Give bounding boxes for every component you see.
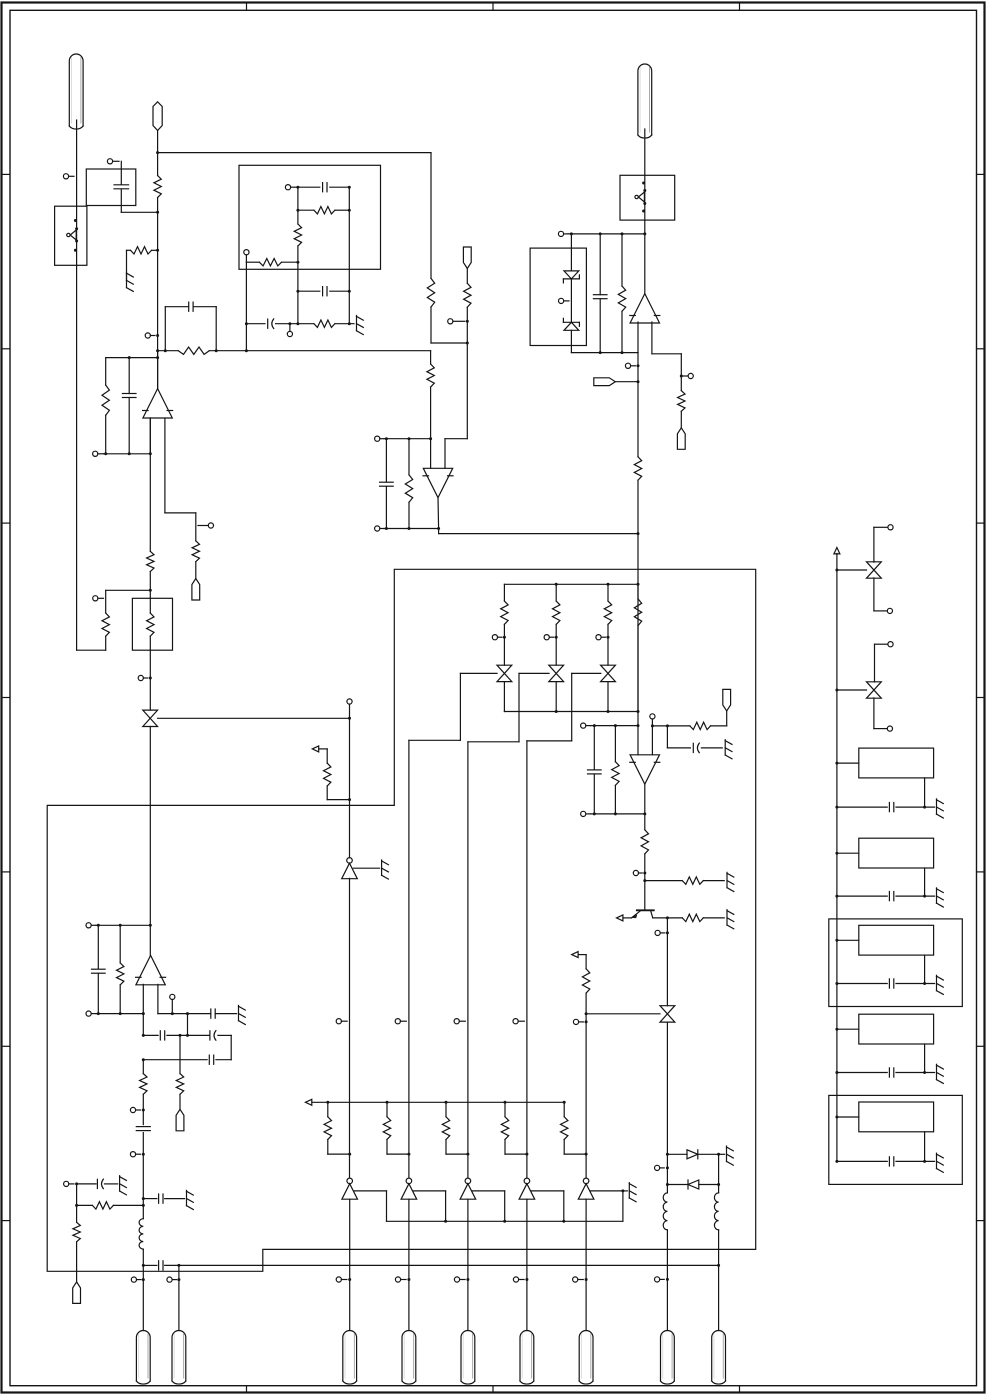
- capacitor C-I1: [92, 925, 106, 1013]
- connector J11 (tube): [712, 1331, 726, 1385]
- resonator unit Y3 (boxed): [829, 919, 963, 1007]
- resistor R-B3: [156, 347, 246, 354]
- terminal T-I1: [86, 923, 96, 928]
- switch SW-G1: [660, 1006, 675, 1022]
- terminal T-E3: [680, 373, 694, 378]
- resonator unit Y1: [835, 748, 943, 818]
- terminal T-G5: [655, 930, 669, 935]
- inverter INV-H5: [578, 1178, 594, 1199]
- capacitor C-E1: [593, 234, 607, 353]
- wire SW-G1 bottom: [666, 1022, 668, 1154]
- ground G-G2: [727, 872, 734, 891]
- wire SW-K1 top: [874, 527, 888, 562]
- terminal T-G4: [633, 870, 646, 875]
- wire row528: [384, 527, 440, 530]
- resistor R-F1: [501, 584, 508, 665]
- terminal T-G2: [650, 714, 655, 755]
- wire col2 down: [408, 740, 410, 1178]
- wire L-J2 down: [717, 1230, 720, 1331]
- transducer element inside U1: [67, 206, 78, 265]
- diode D-J1: [666, 1150, 720, 1159]
- inductor L-I1: [139, 1219, 143, 1249]
- wire x638 mid: [637, 534, 639, 755]
- wire W bottom bus: [142, 1264, 157, 1267]
- wire U-I1 in- down: [142, 984, 144, 1035]
- wire x667.4 down: [666, 918, 668, 1006]
- wire x246 down: [245, 262, 247, 351]
- terminal T-E2: [559, 298, 570, 303]
- resistor R-B5: [192, 541, 199, 579]
- terminal T-H3: [336, 1019, 347, 1024]
- capacitor C-I3 (polarized): [188, 1031, 232, 1041]
- protection box BX2: [530, 248, 586, 345]
- terminal T-E1: [558, 231, 568, 236]
- wire x157.6 mid: [157, 250, 159, 388]
- op-amp U-B1 output up: [157, 351, 159, 389]
- wire U-B1 in+ route: [165, 418, 196, 541]
- wire SW-H1 to x349.5: [158, 717, 351, 720]
- wire INV-H3 bubble link: [472, 1191, 504, 1221]
- terminal T-H5: [454, 1019, 465, 1024]
- component box BX3: [132, 598, 172, 650]
- resistor R-D1: [427, 351, 434, 469]
- resonator unit Y2: [835, 838, 943, 907]
- wire SW-F1 bottom: [503, 682, 505, 712]
- wire J1 down: [76, 120, 78, 206]
- wire SW-K2 bottom: [874, 698, 887, 729]
- capacitor C-C2: [296, 287, 350, 296]
- capacitor C-I6: [142, 1194, 185, 1203]
- terminal T-H2: [138, 675, 152, 680]
- wire row357 left: [106, 356, 159, 359]
- wire x431 to x467: [431, 342, 469, 345]
- wire U-E1 in- down: [637, 322, 639, 457]
- wire row454: [104, 452, 152, 455]
- resistor R-G2: [612, 726, 619, 814]
- port tag TAG-E1: [677, 428, 685, 450]
- resistor R-H1: [324, 749, 352, 801]
- connector J5 (tube): [461, 1331, 475, 1385]
- wire U2 to op-amp U-E1: [644, 220, 646, 294]
- ground G-H1: [382, 860, 389, 879]
- terminal T-K1: [888, 525, 893, 530]
- inductor L-J2: [714, 1193, 718, 1230]
- net arrow AF-H2: [572, 952, 586, 958]
- op-amp U-E1: [630, 294, 660, 323]
- terminal T-E4: [625, 363, 639, 368]
- net arrow AF-H1: [312, 746, 327, 752]
- wire U1 to corner: [76, 265, 78, 650]
- switch SW-F3: [601, 665, 616, 681]
- capacitor C-B2: [165, 302, 216, 311]
- capacitor C-D1: [380, 439, 394, 529]
- terminal T-H1: [347, 699, 352, 858]
- ground G-I2: [120, 1176, 127, 1195]
- terminal T-J1: [655, 1165, 669, 1170]
- feedback loop right leg: [215, 307, 218, 353]
- feedback loop left leg: [164, 307, 167, 353]
- wire R-B2 to ground: [127, 250, 131, 280]
- switch SW-F1: [497, 665, 512, 681]
- ground G-I1: [187, 1190, 194, 1209]
- resistor R-I2: [140, 1060, 147, 1125]
- resistor R-D2: [427, 278, 434, 343]
- resistor R-G1: [667, 722, 710, 729]
- wire U-E1 in+ route: [652, 322, 681, 391]
- net label tag TAG-E2: [594, 378, 640, 386]
- terminal T-I2: [86, 1011, 96, 1016]
- inverter INV-H4: [519, 1178, 535, 1199]
- wire row1014L: [96, 1012, 145, 1015]
- wire INV-H1 bubble link: [354, 1191, 386, 1221]
- wire row584: [504, 583, 639, 586]
- wire SW-K1 bottom: [874, 578, 887, 611]
- wire x231 down: [230, 1035, 232, 1059]
- terminal T-I6: [64, 1181, 74, 1186]
- terminal T-F1: [492, 635, 506, 640]
- terminal T-I5: [130, 1152, 144, 1157]
- wire TAG-D1 down: [466, 269, 468, 284]
- resistor R-D3: [464, 283, 471, 438]
- terminal T-H7: [573, 1019, 587, 1024]
- wire row1014R: [158, 1012, 188, 1015]
- resistor R-C4: [298, 320, 354, 327]
- wire col4 down: [526, 741, 528, 1178]
- net arrow AF-K1: [834, 548, 840, 554]
- wire x297.9 down: [297, 262, 299, 324]
- wire SW-F1 left stair: [409, 673, 497, 740]
- connector J4 (tube): [402, 1331, 416, 1385]
- terminal T-K3: [888, 642, 893, 647]
- inductor L-J1: [663, 1193, 667, 1230]
- ground G-G3: [727, 910, 734, 929]
- wire row353: [571, 351, 638, 354]
- resistor R-H5 (bias): [324, 1101, 351, 1156]
- resistor R-D4: [405, 439, 412, 529]
- terminal T-K4: [887, 726, 892, 731]
- port tag TAG-D1: [463, 247, 471, 269]
- terminal T-G1: [581, 723, 591, 728]
- resistor R-H4: [582, 955, 589, 1178]
- transistor Q-G1: [632, 910, 654, 918]
- wire INV-H2 out: [408, 1199, 410, 1330]
- connector J10 (tube): [661, 1331, 675, 1385]
- resistor R-F2: [553, 584, 560, 665]
- diode D-J2: [666, 1180, 720, 1189]
- wire U-I1 in+ down: [157, 984, 159, 1013]
- wire INV-H1 out: [349, 1199, 351, 1330]
- component box U2: [620, 175, 675, 220]
- wire SW-F2 left stair: [468, 673, 549, 741]
- connector J3 (tube): [343, 1330, 357, 1384]
- op-amp U-D1: [423, 468, 453, 497]
- enclosure box BIGBOX: [47, 569, 756, 1271]
- net arrow AF-H3: [305, 1099, 311, 1105]
- wire row726: [590, 724, 639, 727]
- capacitor C-I5: [136, 1127, 150, 1131]
- terminal T-A1: [63, 174, 74, 179]
- wire U-G1 output: [644, 784, 646, 830]
- ground G-G1: [725, 740, 732, 759]
- port tag TAG-B1: [192, 579, 200, 601]
- wire J2 down: [644, 129, 646, 175]
- ground G-B1: [127, 272, 134, 291]
- resistor R-G3: [641, 830, 648, 911]
- port tag TAG-G1: [723, 689, 731, 711]
- wire zener mid: [570, 279, 572, 322]
- resistor R-H3: [147, 598, 154, 710]
- terminal T-B3: [93, 451, 104, 456]
- resistor R-C2: [294, 187, 301, 262]
- terminal T-I3: [170, 994, 175, 1013]
- connector J6 (tube): [520, 1331, 534, 1385]
- terminal T-I7: [131, 1277, 145, 1282]
- connector J1 (probe tube): [69, 54, 83, 129]
- terminal T-K2: [887, 608, 892, 613]
- resistor R-F4: [634, 584, 641, 711]
- terminal T-H4: [395, 1019, 406, 1024]
- capacitor C-I4: [142, 1055, 231, 1064]
- terminal T-F3: [596, 635, 610, 640]
- inverter INV-H3: [460, 1178, 476, 1199]
- capacitor box around C-B1: [86, 169, 136, 206]
- connector J7 (tube): [579, 1331, 593, 1385]
- capacitor C-I7 (polarized): [75, 1179, 118, 1189]
- ground G-H2: [629, 1183, 636, 1202]
- resonator unit Y5 (boxed): [829, 1095, 963, 1184]
- op-amp U-B1: [143, 389, 173, 418]
- terminal T-D2: [375, 436, 384, 441]
- resistor R-I4: [75, 1202, 145, 1209]
- resistor R-H6 (bias): [383, 1101, 410, 1156]
- wire bias bus: [312, 1101, 564, 1103]
- terminal T-I8: [167, 1277, 181, 1282]
- component box U1: [55, 206, 87, 265]
- wire SW-F3 bottom: [607, 682, 609, 712]
- wire col3 down: [467, 742, 469, 1178]
- resistor R-H2: [147, 418, 154, 598]
- wire U-D1 output: [437, 498, 440, 529]
- terminal T-D1: [448, 319, 469, 324]
- resistor R-B2: [131, 247, 160, 254]
- wire x667 seg: [666, 1154, 668, 1193]
- resistor R-E2: [678, 391, 685, 428]
- wire SW-H1 bottom: [149, 727, 152, 956]
- terminal T-C2: [244, 250, 249, 263]
- capacitor C-I9: [188, 1009, 237, 1018]
- wire P1 down: [157, 131, 159, 176]
- wire x718.6: [718, 1154, 720, 1193]
- terminal T-H11: [513, 1277, 528, 1282]
- wire INV-H5 out: [585, 1199, 587, 1330]
- capacitor C-C1: [296, 183, 349, 192]
- resistor R-I3 (to tag): [176, 1035, 183, 1109]
- wire row439: [384, 437, 432, 440]
- wire x349.3 down: [348, 186, 351, 324]
- switch SW-K1: [835, 562, 881, 578]
- resistor R-B1: [154, 176, 161, 251]
- wire INV-H5 bubble link: [591, 1189, 628, 1221]
- wire L-J1 down: [666, 1230, 668, 1331]
- wire SW-F2 bottom: [555, 682, 557, 712]
- wire x187.5 down: [186, 1012, 189, 1035]
- wire row711: [504, 710, 639, 713]
- ground G-I3: [239, 1005, 246, 1024]
- wire row234: [568, 232, 646, 235]
- wire INV-H3 out: [467, 1199, 469, 1330]
- terminal T-G3: [581, 811, 591, 816]
- capacitor C-B3: [122, 356, 136, 454]
- wire link bus: [387, 1220, 623, 1223]
- terminal T-B4: [198, 523, 213, 528]
- capacitor C-C3 (polarized): [245, 319, 300, 329]
- resistor R-H9 (bias): [561, 1101, 588, 1156]
- resistor R-I5: [73, 1184, 80, 1282]
- wire top net drop: [430, 153, 432, 279]
- inverter INV-H0: [342, 858, 358, 879]
- net arrow AF-G1: [617, 915, 632, 921]
- capacitor C-I2: [142, 1031, 189, 1040]
- zener D-E1: [563, 271, 579, 283]
- inverter INV-H1: [342, 1178, 358, 1199]
- terminal T-H8: [336, 1277, 351, 1282]
- switch SW-K2: [835, 682, 881, 698]
- terminal T-D3: [375, 526, 384, 531]
- resonator unit Y4: [835, 1014, 943, 1083]
- resistor R-H8 (bias): [501, 1101, 528, 1156]
- wire row351 to R-D1: [245, 349, 431, 352]
- wire row925: [96, 924, 150, 927]
- capacitor C-I8: [159, 1261, 719, 1270]
- resistor R-H7 (bias): [442, 1101, 469, 1156]
- block box BX1: [239, 165, 381, 269]
- wire INV-H4 out: [526, 1199, 528, 1330]
- terminal T-H9: [395, 1277, 410, 1282]
- wire INV-H0 gnd: [353, 867, 379, 869]
- wire row814: [590, 812, 646, 815]
- wire SW-K2 top: [875, 644, 888, 682]
- terminal T-C3: [287, 322, 292, 336]
- zener D-E2: [563, 318, 579, 330]
- terminal T-I4: [130, 1107, 144, 1112]
- wire row534: [439, 529, 640, 536]
- wire zener string top: [570, 234, 572, 271]
- terminal T-A2: [93, 596, 104, 601]
- wire INV-H4 bubble link: [531, 1191, 563, 1221]
- wire SW-F3 left stair: [527, 673, 601, 741]
- wire U-B1 in- down: [149, 418, 151, 454]
- resistor R-F3: [604, 584, 611, 665]
- wire below C-I5: [142, 1133, 144, 1219]
- op-amp U-I1: [136, 955, 166, 984]
- terminal T-F2: [544, 635, 558, 640]
- wire T-B1 into C-B1 box: [120, 161, 122, 184]
- resistor R-B4: [102, 358, 109, 454]
- capacitor C-G1 (polarized): [667, 726, 722, 753]
- resistor R-I1: [117, 925, 124, 1013]
- wire x349.5 lower: [349, 878, 351, 1178]
- terminal T-J2: [655, 1277, 669, 1282]
- capacitor C-B1: [114, 185, 129, 189]
- wire row726b: [651, 724, 669, 727]
- resistor R-C1: [296, 207, 350, 214]
- connector J9 (tube): [172, 1331, 186, 1385]
- wire zener string bottom: [570, 330, 572, 352]
- pin P1 (hex pin): [153, 102, 162, 131]
- terminal T-H10: [454, 1277, 469, 1282]
- resistor R-E1: [618, 234, 625, 353]
- switch SW-F2: [549, 665, 564, 681]
- resistor R-E3: [634, 457, 641, 534]
- connector J2 (probe tube): [638, 64, 652, 138]
- resistor R-G4: [643, 877, 724, 884]
- wire x178.9 down: [178, 1265, 180, 1330]
- wire C-B1 to x157.6: [121, 189, 159, 214]
- terminal T-H12: [573, 1277, 588, 1282]
- wire x467 to op-amp: [445, 439, 467, 469]
- port tag TAG-I1: [176, 1109, 184, 1131]
- transducer element inside U2: [635, 175, 646, 220]
- wire row1014 to SW-G1: [585, 1012, 660, 1015]
- wire corner to R-A1: [77, 649, 106, 651]
- terminal T-C1: [285, 185, 296, 190]
- resistor R-C3: [246, 259, 299, 266]
- port tag TAG-I2: [73, 1282, 81, 1304]
- terminal T-B1: [107, 159, 119, 164]
- resistor R-A1: [102, 590, 109, 650]
- inverter INV-H2: [401, 1178, 417, 1199]
- right rail wire: [836, 554, 838, 1162]
- terminal T-B2: [145, 333, 159, 338]
- wire L-I1 down: [142, 1249, 144, 1330]
- wire top net: [156, 151, 431, 154]
- switch SW-H1: [143, 710, 158, 726]
- op-amp U-G1: [630, 755, 660, 784]
- resistor R-G5: [653, 914, 724, 921]
- ground G-C1: [357, 316, 364, 335]
- terminal T-H6: [513, 1019, 524, 1024]
- capacitor C-G2: [588, 726, 602, 814]
- wire INV-H2 bubble link: [413, 1191, 445, 1221]
- ground G-J1: [719, 1146, 734, 1165]
- connector J8 (tube): [136, 1331, 150, 1385]
- wire R-G1 to TAG-G1: [711, 711, 727, 726]
- wire R-A1 top to node: [106, 589, 151, 591]
